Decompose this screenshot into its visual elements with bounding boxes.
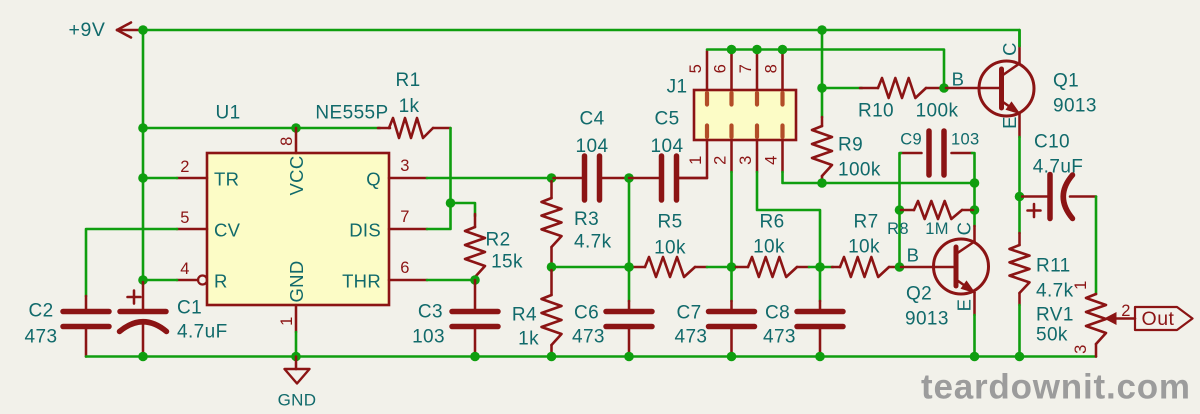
- svg-text:1: 1: [278, 316, 296, 326]
- junction Q2 emitter bus: [970, 352, 980, 362]
- J1 pin 6 stub: [730, 51, 733, 90]
- J1 pin 4 stub: [781, 140, 784, 172]
- svg-text:15k: 15k: [491, 252, 523, 273]
- resistor R11: [1018, 197, 1021, 234]
- junction C9 right / pin4 row: [970, 178, 980, 188]
- junction pin7 top: [752, 45, 762, 55]
- wire Q output row: [427, 177, 553, 180]
- svg-text:CV: CV: [214, 220, 241, 241]
- svg-text:473: 473: [572, 327, 605, 348]
- svg-text:4.7k: 4.7k: [574, 232, 612, 253]
- svg-text:R11: R11: [1036, 256, 1071, 277]
- junction C8 bottom: [815, 352, 825, 362]
- svg-text:U1: U1: [215, 103, 240, 124]
- capacitor C7 top lead: [730, 301, 733, 312]
- svg-text:103: 103: [412, 327, 445, 348]
- C1 plus sign: [128, 296, 141, 299]
- wire pin4 to R9 bottom row: [783, 172, 975, 183]
- resistor R7: [832, 266, 840, 269]
- wire R10 left: [822, 87, 862, 90]
- junction R9 bottom: [817, 178, 827, 188]
- svg-text:NE555P: NE555P: [315, 103, 388, 124]
- junction TR row: [138, 173, 148, 183]
- svg-text:473: 473: [675, 327, 708, 348]
- svg-text:5: 5: [180, 209, 190, 227]
- junction C6 bottom: [624, 352, 634, 362]
- svg-text:C3: C3: [418, 302, 443, 323]
- capacitor C3 top lead: [474, 280, 477, 312]
- capacitor C9 plates: [926, 131, 932, 175]
- pin 5 CV stub: [177, 228, 207, 231]
- capacitor C3 plates: [452, 309, 498, 315]
- resistor R2: [474, 214, 477, 227]
- Q1 collector pin: [1018, 46, 1021, 64]
- capacitor C2 bottom lead: [85, 327, 88, 357]
- transistor Q1 base pin: [946, 87, 999, 90]
- svg-text:C: C: [954, 222, 975, 236]
- svg-text:7: 7: [400, 208, 410, 226]
- wire tap to R2: [451, 203, 476, 216]
- pin 8 VCC stub: [295, 128, 298, 153]
- svg-text:10k: 10k: [753, 237, 785, 258]
- junction VCC pin8 top: [291, 123, 301, 133]
- capacitor C5 right lead: [677, 177, 708, 180]
- wire C9 right down: [972, 153, 975, 183]
- resistor R9: [821, 117, 824, 126]
- wire mid row segment B: [707, 266, 737, 269]
- svg-text:9013: 9013: [905, 309, 949, 330]
- capacitor C2 plates: [63, 309, 109, 315]
- capacitor C6 bottom lead: [628, 327, 631, 357]
- svg-text:6: 6: [400, 259, 410, 277]
- svg-text:3: 3: [737, 155, 755, 165]
- junction mid row C6: [624, 262, 634, 272]
- svg-text:473: 473: [25, 327, 58, 348]
- wire Q1 collector column: [973, 183, 976, 226]
- svg-text:C6: C6: [574, 303, 599, 324]
- svg-text:R2: R2: [485, 230, 510, 251]
- svg-text:J1: J1: [667, 77, 688, 98]
- J1 pin 3 stub: [756, 140, 759, 172]
- svg-text:10k: 10k: [654, 238, 686, 259]
- svg-text:B: B: [952, 69, 965, 90]
- svg-text:VCC: VCC: [286, 156, 307, 196]
- Q2 emitter pin: [973, 293, 976, 316]
- capacitor C5 plates: [659, 156, 665, 200]
- capacitor C4 left lead: [554, 177, 585, 180]
- svg-text:100k: 100k: [838, 160, 881, 181]
- J1 pin 8 stub: [781, 51, 784, 90]
- svg-text:+9V: +9V: [68, 19, 105, 41]
- svg-text:1M: 1M: [925, 220, 949, 238]
- svg-text:E: E: [999, 116, 1020, 129]
- svg-text:1: 1: [1072, 280, 1090, 290]
- junction mid row Q2 base: [895, 262, 905, 272]
- junction R8 right: [970, 205, 980, 215]
- capacitor C2 top lead: [85, 296, 88, 312]
- resistor R4: [550, 270, 553, 295]
- junction THR / R2 / C3: [470, 275, 480, 285]
- capacitor C9 right lead: [952, 152, 973, 155]
- capacitor C8 plates: [797, 309, 843, 315]
- svg-text:C9: C9: [900, 131, 922, 149]
- svg-text:R10: R10: [858, 101, 894, 122]
- capacitor C10 right lead: [1070, 195, 1096, 198]
- wire THR row: [427, 279, 475, 282]
- svg-text:103: 103: [951, 131, 979, 149]
- capacitor C8 top lead: [819, 301, 822, 312]
- junction top bus R9 column: [817, 25, 827, 35]
- svg-text:50k: 50k: [1036, 325, 1068, 346]
- svg-text:1k: 1k: [399, 96, 420, 117]
- svg-text:TR: TR: [214, 169, 239, 190]
- capacitor C1 curved plate: [120, 322, 167, 332]
- J1 pin 7 stub: [756, 51, 759, 90]
- svg-text:R: R: [214, 271, 228, 292]
- J1 pin 5 notch: [705, 93, 709, 105]
- svg-text:8: 8: [278, 136, 296, 146]
- capacitor C4 plates: [582, 156, 588, 200]
- wire R9 column from top bus: [821, 30, 824, 117]
- resistor R1: [378, 127, 390, 130]
- svg-text:C: C: [999, 42, 1020, 56]
- svg-text:RV1: RV1: [1036, 305, 1074, 326]
- svg-text:teardownit.com: teardownit.com: [921, 368, 1191, 407]
- svg-text:5: 5: [687, 64, 705, 74]
- connector J1 body: [694, 90, 796, 140]
- J1 pin 1 stub and wire to C5: [679, 140, 707, 178]
- op-amp U1 body (NE555P): [207, 153, 389, 305]
- wire GND pin to bus: [295, 332, 298, 357]
- svg-text:Q: Q: [366, 169, 381, 190]
- capacitor C3 bottom lead: [474, 327, 477, 357]
- junction pin8 top: [778, 45, 788, 55]
- svg-text:4.7k: 4.7k: [1036, 281, 1074, 302]
- junction mid row / R3 / R4: [547, 262, 557, 272]
- svg-text:R5: R5: [657, 212, 682, 233]
- wire +9V vertical drop: [142, 30, 145, 282]
- wire J1 top pins bus: [707, 50, 944, 89]
- wire Q2 emitter to bus: [973, 315, 976, 357]
- svg-text:100k: 100k: [916, 101, 959, 122]
- wire TR to +9V column: [143, 177, 177, 180]
- svg-text:Out: Out: [1142, 308, 1175, 330]
- svg-text:1: 1: [687, 155, 705, 165]
- svg-text:R3: R3: [574, 209, 599, 230]
- wire mid row segment C: [809, 266, 833, 269]
- wire Q1 collector to top bus: [1018, 30, 1021, 46]
- svg-text:B: B: [907, 245, 920, 266]
- svg-text:E: E: [954, 299, 975, 312]
- capacitor C7 bottom lead: [730, 327, 733, 357]
- J1 pin 3 notch: [755, 126, 759, 138]
- junction C1 bottom: [138, 352, 148, 362]
- svg-text:10k: 10k: [848, 237, 880, 258]
- svg-text:2: 2: [180, 158, 190, 176]
- wire C8 top: [819, 267, 822, 301]
- svg-text:7: 7: [737, 64, 755, 74]
- resistor R6: [736, 266, 748, 269]
- svg-text:Q2: Q2: [906, 284, 932, 305]
- capacitor C1 top plate: [120, 309, 166, 315]
- svg-text:8: 8: [763, 64, 781, 74]
- pin 1 GND stub: [295, 305, 298, 332]
- C10 plus sign: [1028, 209, 1041, 212]
- wire +9V top bus: [143, 30, 1020, 46]
- J1 pin 4 notch: [780, 126, 784, 138]
- RV1 wiper arrow: [1104, 312, 1117, 325]
- svg-text:R8: R8: [887, 220, 909, 238]
- svg-text:C5: C5: [654, 109, 679, 130]
- junction mid row C8 pin3: [815, 262, 825, 272]
- svg-text:R4: R4: [512, 305, 537, 326]
- junction U1 supply row: [138, 123, 148, 133]
- svg-text:R7: R7: [853, 212, 878, 233]
- J1 pin 8 notch: [780, 93, 784, 105]
- svg-text:4.7uF: 4.7uF: [1033, 157, 1084, 178]
- capacitor C5 left lead: [629, 177, 662, 180]
- capacitor C10 curved plate: [1063, 175, 1072, 219]
- J1 pin 6 notch: [729, 93, 733, 105]
- pin 6 THR stub: [389, 279, 427, 282]
- svg-text:GND: GND: [278, 391, 317, 410]
- resistor R5: [631, 266, 645, 269]
- wire pin3 jog to R6-R7 junction: [757, 172, 820, 267]
- svg-text:R1: R1: [395, 70, 420, 91]
- pin 2 TR stub: [177, 177, 207, 180]
- junction R row: [138, 275, 148, 285]
- capacitor C9 left lead: [901, 152, 922, 155]
- svg-text:9013: 9013: [1053, 96, 1097, 117]
- potentiometer RV1: [1086, 294, 1106, 344]
- pin 3 Q stub: [389, 177, 427, 180]
- junction C7 bottom: [727, 352, 737, 362]
- svg-text:1k: 1k: [518, 329, 539, 350]
- svg-text:2: 2: [1121, 302, 1131, 320]
- svg-text:C10: C10: [1034, 132, 1070, 153]
- junction C4-C5: [624, 173, 634, 183]
- wire U1 VCC row: [143, 127, 380, 130]
- svg-text:4: 4: [763, 155, 781, 165]
- junction Q1 emitter / C10 / R11: [1015, 192, 1025, 202]
- wire C7 top: [730, 267, 733, 301]
- wire R1 to DIS: [427, 128, 451, 229]
- J1 pin 2 notch: [729, 126, 733, 138]
- junction at +9V column: [138, 25, 148, 35]
- J1 pin 2 stub: [730, 140, 733, 172]
- capacitor C6 plates: [606, 309, 652, 315]
- global label Out: [1135, 307, 1193, 330]
- svg-text:C8: C8: [765, 303, 790, 324]
- ground symbol: [295, 357, 298, 370]
- svg-text:R9: R9: [838, 135, 863, 156]
- wire R pin to +9V column: [143, 279, 177, 282]
- Q1 emitter pin: [1018, 114, 1021, 138]
- svg-text:C2: C2: [28, 301, 53, 322]
- resistor R8: [901, 209, 914, 212]
- svg-text:3: 3: [400, 157, 410, 175]
- resistor R3: [550, 181, 553, 198]
- svg-text:4: 4: [180, 260, 190, 278]
- junction Q1 base: [939, 83, 949, 93]
- svg-text:C4: C4: [579, 109, 604, 130]
- junction R4 bottom: [547, 352, 557, 362]
- wire C6 top: [628, 267, 631, 301]
- capacitor C6 top lead: [628, 301, 631, 312]
- capacitor C10 flat plate: [1047, 175, 1053, 219]
- capacitor C7 plates: [709, 309, 755, 315]
- junction R2 tap: [446, 198, 456, 208]
- svg-text:4.7uF: 4.7uF: [177, 322, 228, 343]
- junction C3 bottom: [470, 352, 480, 362]
- junction R8 left: [895, 205, 905, 215]
- Q2 collector pin: [973, 226, 976, 242]
- svg-text:3: 3: [1072, 344, 1090, 354]
- capacitor C8 bottom lead: [819, 327, 822, 357]
- svg-text:2: 2: [712, 155, 730, 165]
- capacitor C10 left lead: [1022, 195, 1047, 198]
- svg-text:104: 104: [576, 136, 609, 157]
- junction Q row / R3 / C4: [547, 173, 557, 183]
- wire C4C5 junction down to mid row: [628, 178, 631, 267]
- svg-text:104: 104: [651, 136, 684, 157]
- resistor R10: [860, 87, 878, 90]
- transistor Q2 base pin: [901, 266, 953, 269]
- wire C9 left down: [900, 153, 902, 267]
- svg-text:GND: GND: [286, 260, 307, 302]
- transistor Q1 body: [979, 61, 1034, 116]
- junction mid row C7 pin2: [727, 262, 737, 272]
- junction pin6 top: [727, 45, 737, 55]
- svg-text:Q1: Q1: [1053, 71, 1079, 92]
- pin 7 DIS stub: [389, 228, 427, 231]
- svg-text:DIS: DIS: [349, 220, 381, 241]
- svg-text:C7: C7: [677, 303, 702, 324]
- junction GND symbol: [291, 352, 301, 362]
- junction R9-R10 tap: [817, 83, 827, 93]
- svg-text:R6: R6: [759, 212, 784, 233]
- wire C10 to RV1: [1095, 197, 1098, 295]
- capacitor C4 right lead: [600, 177, 630, 180]
- wire CV to C2: [86, 229, 177, 296]
- transistor Q2 body: [934, 239, 989, 294]
- wire ground bus: [86, 355, 1096, 358]
- J1 pin 1 notch: [705, 126, 709, 138]
- power symbol +9V arrow: [117, 29, 141, 32]
- pin 4 R stub with inversion circle: [177, 279, 198, 282]
- svg-text:C1: C1: [177, 298, 202, 319]
- J1 pin 5 stub: [706, 51, 709, 90]
- svg-text:6: 6: [712, 64, 730, 74]
- wire pin2 down to mid row: [730, 172, 733, 267]
- svg-text:THR: THR: [342, 271, 381, 292]
- wire Q1 emitter down: [1018, 137, 1021, 197]
- capacitor C1 top lead: [142, 282, 145, 312]
- capacitor C1 bottom lead: [142, 322, 145, 357]
- junction R11 bottom: [1015, 352, 1025, 362]
- svg-text:473: 473: [763, 327, 796, 348]
- wire mid row segment A: [552, 266, 634, 269]
- J1 pin 7 notch: [755, 93, 759, 105]
